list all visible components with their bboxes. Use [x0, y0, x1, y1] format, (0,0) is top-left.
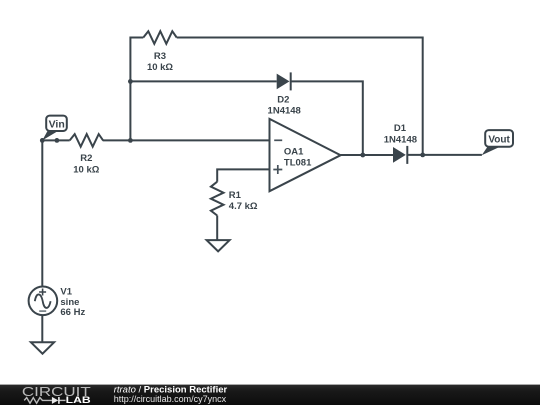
- svg-text:10 kΩ: 10 kΩ: [73, 164, 99, 175]
- diode D2: [268, 72, 301, 116]
- wire: Vin node to R2: [42, 139, 69, 141]
- svg-text:4.7 kΩ: 4.7 kΩ: [229, 201, 258, 212]
- node: op-amp output junction: [360, 153, 365, 158]
- svg-text:1N4148: 1N4148: [268, 106, 301, 117]
- svg-text:D2: D2: [277, 94, 289, 105]
- logo diode: [52, 397, 58, 404]
- wire: Vin node down to V1: [41, 140, 43, 286]
- logo schematic line: [24, 398, 65, 404]
- flag Vin: [42, 116, 67, 141]
- resistor R3 label: [147, 51, 173, 73]
- svg-text:D1: D1: [394, 123, 407, 134]
- ground (V1): [31, 342, 54, 353]
- resistor R3: [143, 31, 176, 44]
- wire: op-amp output to D1: [341, 154, 393, 156]
- diode D1: [384, 123, 417, 164]
- svg-text:LAB: LAB: [66, 395, 91, 405]
- svg-text:R1: R1: [229, 190, 242, 201]
- svg-text:10 kΩ: 10 kΩ: [147, 62, 173, 73]
- op-amp OA1: [270, 119, 341, 191]
- svg-text:Vout: Vout: [488, 135, 510, 146]
- wire: non-inverting input to R1 top: [217, 169, 269, 181]
- node: Vout junction: [420, 153, 425, 158]
- node: summing junction lower: [128, 138, 133, 143]
- footer bar: [0, 385, 540, 405]
- node: R2 left terminal: [55, 138, 60, 143]
- resistor R1 label: [229, 190, 258, 212]
- wire: top feedback to right then down: [177, 38, 423, 155]
- wire: R1 bottom to ground: [216, 216, 218, 241]
- ground (R1): [207, 240, 230, 251]
- svg-text:66 Hz: 66 Hz: [60, 307, 85, 318]
- svg-text:V1: V1: [60, 287, 72, 298]
- wire: D2 cathode to corner down to output: [291, 81, 363, 155]
- wire: D2 branch left: [130, 80, 276, 82]
- flag Vout: [482, 130, 513, 155]
- source V1: [29, 287, 86, 319]
- svg-text:OA1: OA1: [284, 147, 304, 158]
- svg-text:R2: R2: [80, 153, 92, 164]
- svg-text:R3: R3: [154, 51, 166, 62]
- resistor R2 label: [73, 153, 99, 175]
- node A: Vin tap: [40, 138, 45, 143]
- wire: R2 to op-amp inverting input: [103, 139, 270, 141]
- svg-text:Vin: Vin: [49, 119, 65, 131]
- wire: D1 cathode to Vout: [407, 154, 482, 156]
- wire: summing node vertical (x=130): [130, 38, 143, 141]
- svg-text:1N4148: 1N4148: [384, 134, 417, 145]
- svg-text:http://circuitlab.com/cy7yncx: http://circuitlab.com/cy7yncx: [114, 394, 227, 404]
- wire: V1 to ground: [41, 315, 43, 342]
- resistor R1: [211, 182, 224, 216]
- resistor R2: [70, 134, 103, 147]
- svg-text:TL081: TL081: [284, 158, 312, 169]
- node: summing junction upper: [128, 79, 133, 84]
